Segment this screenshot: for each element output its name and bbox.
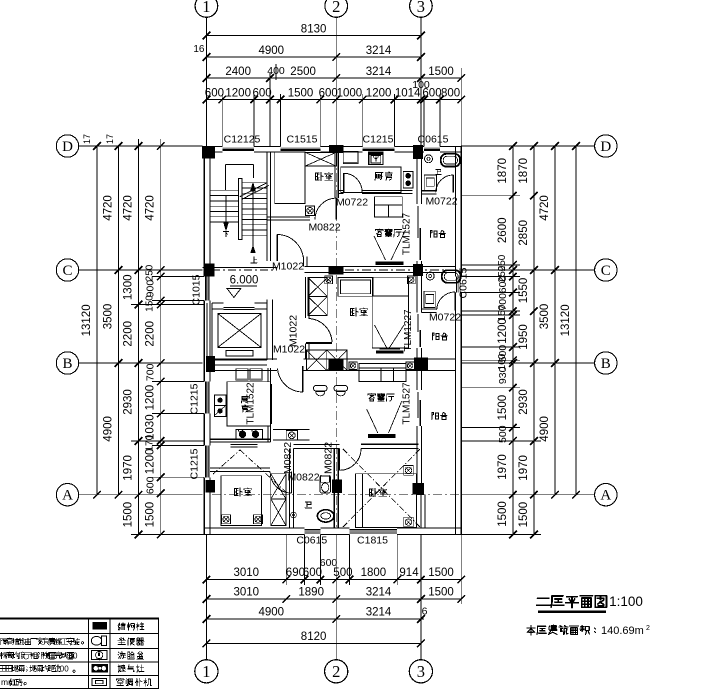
- svg-text:1200: 1200: [145, 449, 157, 475]
- svg-text:3214: 3214: [366, 45, 392, 57]
- svg-text:4900: 4900: [259, 45, 285, 57]
- svg-text:C12125: C12125: [224, 134, 261, 146]
- svg-text:A: A: [600, 488, 611, 504]
- svg-text:2: 2: [332, 0, 340, 16]
- svg-text:1500: 1500: [428, 587, 454, 599]
- svg-text:3010: 3010: [234, 587, 260, 599]
- svg-text:TLM1522: TLM1522: [246, 382, 257, 425]
- svg-text:3214: 3214: [366, 607, 392, 619]
- svg-text:800: 800: [441, 88, 460, 100]
- svg-text:B: B: [62, 356, 72, 372]
- svg-text:6.000: 6.000: [230, 275, 259, 287]
- svg-text:2850: 2850: [518, 220, 530, 246]
- svg-text:1970: 1970: [518, 455, 530, 481]
- svg-text:2200: 2200: [145, 321, 157, 347]
- svg-text:TLM1527: TLM1527: [402, 382, 413, 425]
- svg-text:1970: 1970: [497, 454, 509, 480]
- svg-text:2930: 2930: [518, 389, 530, 415]
- svg-text:1: 1: [202, 0, 210, 16]
- svg-text:M0822: M0822: [282, 442, 294, 474]
- svg-text:1500: 1500: [288, 88, 314, 100]
- svg-text:4900: 4900: [259, 607, 285, 619]
- svg-text:3010: 3010: [234, 567, 260, 579]
- svg-text:2: 2: [646, 625, 650, 632]
- svg-text:M0722: M0722: [336, 197, 368, 209]
- svg-text:900: 900: [145, 280, 157, 298]
- svg-text:600: 600: [205, 88, 224, 100]
- svg-text:M0822: M0822: [287, 472, 319, 484]
- svg-text:3500: 3500: [103, 304, 115, 330]
- svg-text:1200: 1200: [497, 318, 509, 344]
- svg-text:6: 6: [422, 606, 428, 618]
- svg-text:3500: 3500: [539, 304, 551, 330]
- svg-text:16: 16: [193, 44, 205, 55]
- svg-text:600: 600: [319, 88, 338, 100]
- svg-text:1: 1: [202, 662, 210, 681]
- svg-text:C1215: C1215: [363, 134, 394, 146]
- svg-text:4720: 4720: [123, 195, 135, 221]
- svg-text:C: C: [62, 263, 72, 279]
- svg-text:4720: 4720: [145, 195, 157, 221]
- svg-text:1500: 1500: [518, 502, 530, 528]
- svg-text:700: 700: [145, 363, 157, 381]
- svg-text:B: B: [601, 356, 611, 372]
- svg-text:3: 3: [417, 662, 425, 681]
- svg-text:2400: 2400: [225, 66, 251, 78]
- svg-text:M0822: M0822: [323, 442, 335, 474]
- svg-text:1500: 1500: [428, 66, 454, 78]
- svg-text:1200: 1200: [225, 88, 251, 100]
- svg-text:D: D: [62, 139, 73, 155]
- svg-text:600: 600: [497, 276, 509, 294]
- svg-text:1550: 1550: [518, 278, 530, 304]
- svg-text:C0615: C0615: [296, 535, 327, 547]
- svg-text:17: 17: [105, 134, 115, 144]
- svg-text:1300: 1300: [123, 275, 135, 301]
- svg-text:C0615: C0615: [418, 134, 449, 146]
- svg-text:M0722: M0722: [425, 196, 457, 208]
- svg-text:4900: 4900: [103, 416, 115, 442]
- svg-text:13120: 13120: [560, 304, 572, 336]
- svg-text:1950: 1950: [518, 324, 530, 350]
- svg-text:140.69m: 140.69m: [601, 625, 644, 637]
- svg-text:600: 600: [253, 88, 272, 100]
- svg-text:13120: 13120: [81, 304, 93, 336]
- svg-text:C: C: [601, 263, 611, 279]
- svg-text:1500: 1500: [497, 395, 509, 421]
- svg-text:M0722: M0722: [429, 312, 461, 324]
- svg-text:8120: 8120: [301, 631, 327, 643]
- svg-text:A: A: [62, 488, 73, 504]
- svg-text:914: 914: [399, 567, 419, 579]
- svg-text:150: 150: [145, 295, 156, 312]
- svg-text:M1022: M1022: [273, 344, 305, 356]
- svg-text:2600: 2600: [497, 218, 509, 244]
- svg-text:2200: 2200: [123, 321, 135, 347]
- svg-text:1870: 1870: [497, 158, 509, 184]
- svg-text:C1215: C1215: [189, 448, 201, 479]
- svg-text:M1022: M1022: [272, 261, 304, 273]
- svg-text:1000: 1000: [337, 88, 363, 100]
- svg-text:17: 17: [82, 134, 92, 144]
- svg-text:30: 30: [69, 651, 78, 660]
- svg-text:2930: 2930: [123, 389, 135, 415]
- svg-text:4900: 4900: [539, 416, 551, 442]
- svg-text:600: 600: [422, 88, 441, 100]
- svg-text:2: 2: [332, 662, 340, 681]
- svg-text:C1815: C1815: [357, 535, 388, 547]
- svg-text:3214: 3214: [366, 587, 392, 599]
- svg-text:100: 100: [55, 664, 69, 673]
- svg-text:1500: 1500: [123, 502, 135, 528]
- svg-text:1500: 1500: [497, 501, 509, 527]
- svg-text:TLM1527: TLM1527: [402, 212, 413, 255]
- svg-text:8130: 8130: [301, 24, 327, 36]
- svg-text:D: D: [600, 139, 611, 155]
- svg-text:1870: 1870: [518, 158, 530, 184]
- svg-text:M1022: M1022: [288, 315, 300, 347]
- svg-text:1800: 1800: [361, 567, 387, 579]
- svg-text:4720: 4720: [539, 195, 551, 221]
- svg-text:1890: 1890: [298, 587, 324, 599]
- svg-text:C1515: C1515: [287, 134, 318, 146]
- svg-text:1500: 1500: [428, 567, 454, 579]
- svg-text:1200: 1200: [366, 88, 392, 100]
- svg-text:250: 250: [145, 264, 156, 281]
- svg-text:2500: 2500: [290, 66, 316, 78]
- svg-text:3: 3: [417, 0, 425, 16]
- svg-text:1500: 1500: [145, 502, 157, 528]
- svg-text:3214: 3214: [366, 66, 392, 78]
- svg-text:1970: 1970: [123, 455, 135, 481]
- svg-text:4720: 4720: [103, 195, 115, 221]
- svg-text:C1215: C1215: [189, 383, 201, 414]
- svg-text:930: 930: [497, 366, 509, 384]
- svg-text:600: 600: [145, 476, 157, 494]
- svg-text:C1015: C1015: [191, 274, 203, 305]
- svg-text:1:100: 1:100: [609, 594, 643, 609]
- svg-text:1200: 1200: [145, 385, 157, 411]
